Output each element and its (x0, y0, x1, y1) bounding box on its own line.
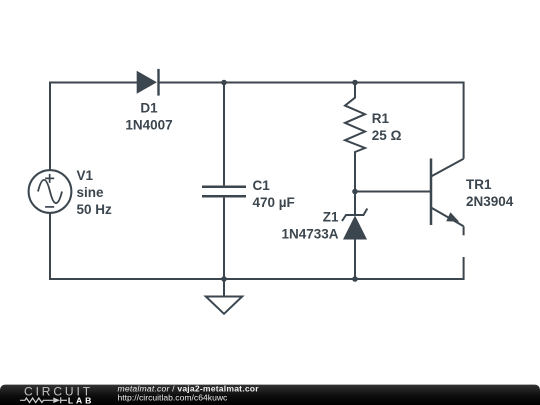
svg-text:D1: D1 (140, 100, 158, 115)
svg-text:LAB: LAB (68, 396, 94, 405)
svg-text:1N4007: 1N4007 (125, 117, 172, 132)
junction dot: ground node on bottom rail (221, 276, 227, 282)
voltage source V1 (29, 170, 72, 213)
ground (206, 279, 242, 314)
wire: base node to TR1 base (355, 191, 430, 193)
svg-text:TR1: TR1 (466, 177, 492, 192)
svg-text:V1: V1 (77, 168, 94, 183)
transistor TR1 (431, 159, 464, 236)
svg-text:Z1: Z1 (323, 210, 339, 225)
junction dot: base node (R1 / Z1 / TR1 base) (352, 189, 358, 195)
svg-text:R1: R1 (372, 111, 390, 126)
footer bar (0, 385, 540, 405)
junction dot: zener anode node on bottom rail (352, 276, 358, 282)
svg-text:2N3904: 2N3904 (466, 194, 514, 209)
wire: ground junction to zener junction along bottom rail (224, 278, 355, 280)
wire: V1 minus terminal down to bottom-left corner, to ground junction (50, 213, 224, 279)
svg-text:sine: sine (77, 185, 105, 200)
wire: zener junction to bottom-right corner, up toward emitter (with gap) (355, 257, 464, 279)
svg-text:50 Hz: 50 Hz (77, 202, 113, 217)
svg-text:1N4733A: 1N4733A (281, 227, 338, 242)
junction dot: node between C1 branch and R1 branch (352, 80, 358, 86)
diode D1 (137, 69, 159, 96)
resistor R1 (345, 83, 365, 192)
svg-text:470 µF: 470 µF (253, 195, 295, 210)
junction dot: node between D1 and C1 (221, 80, 227, 86)
svg-text:25 Ω: 25 Ω (372, 128, 402, 143)
svg-text:C1: C1 (253, 178, 271, 193)
zener diode Z1 (342, 192, 367, 280)
wire: V1 plus terminal up to top-left corner, to diode D1 anode (50, 83, 138, 171)
capacitor C1 (202, 83, 246, 280)
svg-text:http://circuitlab.com/c64kuwc: http://circuitlab.com/c64kuwc (118, 392, 229, 402)
logo resistor-diode icon (20, 397, 67, 403)
wire: diode D1 cathode to top-right corner, down to TR1 collector (158, 83, 464, 159)
